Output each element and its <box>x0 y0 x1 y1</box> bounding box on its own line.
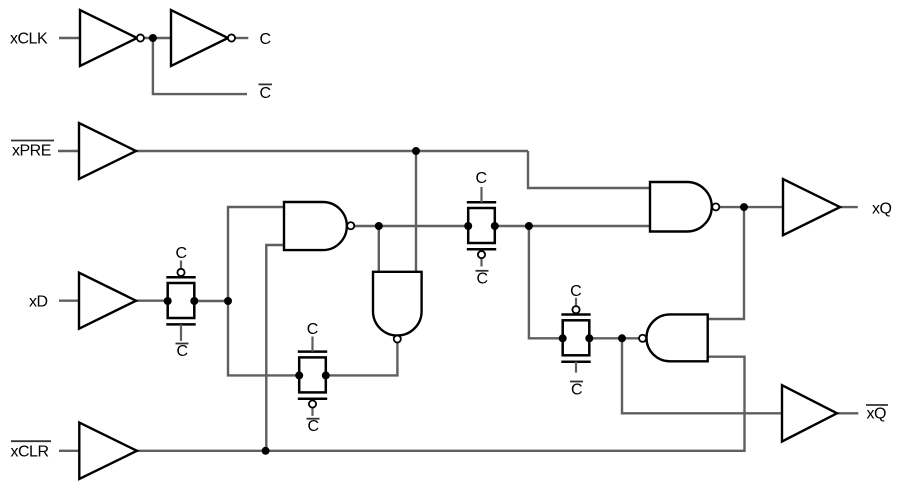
svg-text:C: C <box>175 245 186 262</box>
svg-text:C: C <box>176 343 187 360</box>
svg-text:C: C <box>571 382 582 399</box>
svg-text:C: C <box>570 283 581 300</box>
svg-text:C: C <box>307 418 318 435</box>
svg-text:xCLK: xCLK <box>10 31 48 48</box>
svg-text:C: C <box>260 85 271 102</box>
svg-text:xQ: xQ <box>867 406 887 423</box>
svg-text:xD: xD <box>29 294 48 311</box>
svg-text:C: C <box>307 321 318 338</box>
svg-text:xCLR: xCLR <box>11 444 49 461</box>
svg-text:C: C <box>476 271 487 288</box>
svg-text:C: C <box>475 170 486 187</box>
svg-text:xPRE: xPRE <box>12 143 51 160</box>
svg-text:C: C <box>260 31 271 48</box>
svg-text:xQ: xQ <box>872 200 892 217</box>
